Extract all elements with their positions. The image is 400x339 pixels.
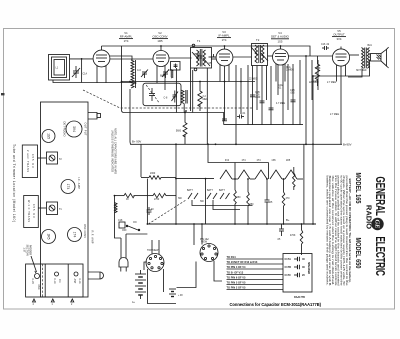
tube V3 [216,46,233,68]
switch contacts BATT/SW [178,189,230,203]
wire V5 cathode down [340,66,342,144]
wire plug risers [115,222,148,246]
svg-text:TO PIN 2 OF V5: TO PIN 2 OF V5 [227,286,247,290]
svg-text:T1: T1 [197,39,201,43]
IF transformer T1 [191,39,212,71]
switch to filament wires [192,200,253,210]
svg-text:TO PIN 5 OF V5: TO PIN 5 OF V5 [227,281,247,285]
tuning gang box [26,264,83,297]
label IF AMP [77,177,81,189]
svg-text:SPEAKER: SPEAKER [307,262,310,274]
svg-text:1T4: 1T4 [73,232,77,238]
antenna tab top [88,113,101,120]
svg-text:B+90V: B+90V [343,143,352,147]
svg-text:1S5: 1S5 [47,133,51,139]
cap .05 mid [265,179,273,224]
svg-text:DET & AUDIO: DET & AUDIO [271,35,289,39]
svg-text:TO JUNCT OF R12 & R13: TO JUNCT OF R12 & R13 [227,260,258,264]
variable cap arrow [146,85,159,103]
wire x=190.5 [190,68,192,111]
label V5 OUTPUT 3V4 [332,29,346,41]
wire T1 feed [192,70,194,113]
svg-text:.005: .005 [290,93,295,95]
osc coil [181,90,187,113]
label B+90V right [343,143,352,147]
svg-text:2 unit TRANS: 2 unit TRANS [26,150,29,172]
wires socket1 [144,262,147,270]
tube pin drop wires [97,68,346,90]
filament string labels [225,160,291,162]
resistor 2300 [141,173,176,179]
resistor 470 [282,179,290,224]
svg-text:1T4: 1T4 [256,160,261,162]
svg-text:R.F. AMP: R.F. AMP [91,231,95,244]
resistor right of filament [292,167,295,190]
svg-text:22MEG: 22MEG [286,70,294,72]
svg-text:Connections for Capacitor ECM-: Connections for Capacitor ECM-3011(RAA17… [230,302,322,307]
padder arrow [31,256,37,273]
svg-text:PADDER: PADDER [29,245,32,255]
tube 3V4 layout [66,121,82,137]
svg-text:1R5: 1R5 [157,39,163,43]
output transformer [356,45,372,72]
svg-text:C17B: C17B [285,266,292,269]
wire output transformer bottom [348,68,362,77]
svg-text:1 ST: 1 ST [23,247,26,253]
label .27 MEG [327,82,336,84]
lower bus y=224 [147,223,316,225]
svg-text:OSC-CONV: OSC-CONV [152,35,167,39]
label SM11A [294,296,305,299]
resistor 680 a [234,179,241,224]
chassis box [41,102,89,297]
svg-text:SECTION: SECTION [26,244,29,255]
svg-text:1T4: 1T4 [124,39,129,43]
wires bottom risers [193,224,195,245]
svg-text:C15: C15 [313,81,318,83]
label B+90V left [132,140,141,144]
label box w-1c trans [24,196,47,228]
svg-text:GE: GE [374,219,381,229]
trimmer C-1A [72,66,87,78]
wire vertical x=141 [140,144,142,177]
horizontal y=124.6 [224,124,303,126]
svg-text:4.7 MEG: 4.7 MEG [276,103,285,105]
cap .05 b between T1 V3 [208,54,216,65]
dashed link from loop [83,90,252,108]
svg-text:1T4: 1T4 [66,184,70,190]
tube 1S5 layout [42,130,55,143]
left lower vertical [114,196,116,222]
label DET-AUDIO [63,122,67,137]
svg-text:C17A: C17A [285,258,292,261]
resistor 470K bottom [290,224,303,255]
resistor 470K output grid [313,56,320,86]
svg-text:1T4: 1T4 [222,38,227,42]
svg-text:B+: B+ [286,218,290,222]
antenna loop L1 [49,55,70,81]
svg-text:UNLESS OTHERWISE INDICATED: UNLESS OTHERWISE INDICATED [111,130,114,172]
trimmer inside box [172,91,179,103]
MODEL 165 [354,173,362,204]
grid capacitor box C7 [171,62,181,71]
svg-text:BATT: BATT [219,189,225,192]
battery A [132,270,146,304]
wire speaker return [313,60,370,224]
resistor 33 [115,193,150,201]
svg-text:W-1 C TRANS: W-1 C TRANS [27,200,30,222]
svg-text:3V4: 3V4 [337,37,342,41]
tube V4 [273,46,289,68]
svg-text:470K: 470K [290,235,296,237]
svg-text:C-1A: C-1A [78,278,81,284]
svg-text:TO PIN 4 OF V4: TO PIN 4 OF V4 [227,265,247,269]
svg-text:C16 .02: C16 .02 [321,44,330,46]
T1 square [47,202,63,215]
svg-text:5600: 5600 [176,131,182,133]
capacitor C18 [118,220,125,228]
label 660K [160,76,166,78]
caption tube and trimmer location [12,144,16,222]
svg-text:T2: T2 [256,38,260,42]
left vertical bus [122,46,224,125]
svg-text:TO B- OF V13: TO B- OF V13 [227,271,244,275]
gang section numbers [33,304,74,306]
coil on left bus [115,203,118,213]
trimmer cap top a [137,70,148,79]
svg-text:2.7 MEG: 2.7 MEG [327,82,336,84]
wire right bus x=303.9 [303,144,305,224]
svg-text:BLU: BLU [368,45,373,47]
dashed link switch [148,200,186,224]
svg-text:I.F. AMP: I.F. AMP [77,177,81,189]
speaker [370,47,389,68]
tube 1R5 layout [42,230,56,244]
svg-text:IF-AMPL: IF-AMPL [218,34,229,38]
RADIO [364,205,373,229]
B+ bus y=141 [130,89,342,144]
AVC bus y=81.5 [122,81,256,83]
tube V1 [93,46,110,69]
svg-text:OSC: OSC [37,284,39,289]
AC plug [119,245,128,272]
vertical x=205.5 [205,179,207,224]
wire loop bottom [53,80,135,83]
label OUT PUT [84,123,88,136]
svg-text:R.F.: R.F. [58,279,60,283]
svg-text:TO R14: TO R14 [227,255,237,259]
GENERAL ELECTRIC wordmark [372,176,386,276]
svg-text:C18: C18 [118,220,123,222]
battery note paragraph [325,176,352,287]
label 1st section padder [23,244,32,255]
svg-text:RF-AMPL: RF-AMPL [120,35,133,39]
svg-text:1S5: 1S5 [271,160,276,162]
svg-text:MMF: MMF [255,97,261,99]
oscillator section rounded box [143,83,181,106]
left margin tick [1,93,5,95]
label TOP VIEW [147,250,159,252]
svg-text:C-1B: C-1B [31,278,33,284]
resistor 2700 [149,193,176,201]
vertical x=147.4 [146,179,148,224]
cap .05 a [193,53,202,58]
tube 1T4 osc layout [68,228,82,242]
label RF AMP [91,231,95,244]
svg-text:3V4: 3V4 [225,160,230,162]
svg-text:BATT: BATT [187,189,193,192]
socket 1 [146,254,164,272]
small caps on verticals [222,95,296,121]
svg-text:MODEL 650: MODEL 650 [354,238,362,269]
svg-text:1S5: 1S5 [278,39,283,43]
svg-text:1T4: 1T4 [241,160,246,162]
svg-text:OUT PUT: OUT PUT [84,123,88,136]
svg-text:660K: 660K [160,76,166,78]
IF transformer T2 [251,38,268,66]
label V2 OSC-CONV 1R5 [152,31,168,43]
svg-text:2300: 2300 [150,173,156,175]
cap .05 bottom right [277,224,284,241]
svg-text:22 MEG: 22 MEG [249,79,258,81]
vertical x=176 [175,144,177,178]
svg-text:C17C: C17C [285,274,292,277]
svg-text:DET-AUDIO: DET-AUDIO [63,122,67,137]
svg-text:GENERAL: GENERAL [372,176,386,216]
svg-text:TOP VIEW: TOP VIEW [147,250,159,252]
wire y=178.6 [176,178,214,180]
wire coil top [110,56,132,60]
resistor 5600 [176,112,187,145]
svg-text:Tube and Trimmer Location (Mod: Tube and Trimmer Location (Model 160) [12,144,16,222]
tube 1T4 if layout [61,180,75,194]
svg-text:TO PIN 6 OF V5: TO PIN 6 OF V5 [227,276,247,280]
label OSC CONV [83,224,87,238]
svg-text:ELECTRIC: ELECTRIC [372,236,386,276]
svg-text:C-1C: C-1C [53,278,55,284]
note all capacitors [111,128,117,174]
svg-text:RADIO: RADIO [364,205,373,229]
variable cap C1B [149,88,155,101]
top wire bus y=46 [102,46,311,56]
svg-text:C1A: C1A [83,73,88,76]
wire V3 cathode drop [206,68,208,144]
GE monogram logo [371,218,383,230]
svg-text:2.7 MEG: 2.7 MEG [330,114,339,116]
wire avc drop x=176.4 [175,68,177,113]
svg-text:OSC CONV: OSC CONV [83,224,87,238]
svg-text:MEG: MEG [203,99,208,101]
svg-text:2700: 2700 [154,199,160,201]
socket1 stubs to switch [152,240,159,255]
label C-8 [164,98,168,100]
trimmer cap top b [162,70,173,79]
T2 square [47,152,63,164]
verticals under V3/T2/V4 [224,66,226,121]
label V4 DET & AUDIO 1S5 [271,31,290,43]
label V3 IF-AMPL 1T4 [217,30,231,42]
svg-text:3V4: 3V4 [72,126,76,132]
tube V5 [332,47,349,70]
label V1 RF-AMPL 1T4 [119,31,133,43]
wire antenna drop [81,58,83,83]
svg-text:RAA177B: RAA177B [294,296,305,299]
svg-text:BATT: BATT [207,189,213,192]
svg-text:+ 9V: + 9V [178,295,183,297]
svg-text:OUTPUT: OUTPUT [333,33,345,37]
svg-text:455 KC: 455 KC [31,154,34,168]
filament left riser [207,143,268,179]
wire L1 to V1 grid [70,58,94,60]
label box 2 unit trans [22,145,46,178]
antenna tab bottom [88,272,104,279]
cap C16 .02 [321,44,330,50]
labels under V4 [249,66,339,116]
svg-text:NOT RED: NOT RED [356,70,367,72]
on-off switch [122,222,140,232]
MODEL 650 [354,238,362,269]
svg-text:OFF: OFF [122,230,127,232]
cap .01 [237,113,246,119]
svg-text:455 KC: 455 KC [32,204,35,218]
label B+ [286,218,290,222]
label bottom view [200,239,209,244]
socket 2 [200,244,218,262]
connection list rows [227,255,284,290]
resistor 680 b [247,179,254,224]
svg-text:MODEL 165: MODEL 165 [354,173,362,204]
caption connections [230,302,322,307]
filament chevrons [220,170,303,179]
choke under C7 box [171,70,173,78]
battery B [169,289,183,297]
wires socket2 [177,262,197,288]
resistor 2.2meg v3 grid [198,82,208,112]
electrolytic can C17 [283,254,312,293]
svg-text:1R5: 1R5 [286,160,291,162]
svg-text:ON: ON [133,222,137,224]
rf coil L2 [131,60,136,88]
wire tube row y=59 [110,58,153,60]
gang ticks [33,299,74,302]
svg-text:1R5: 1R5 [47,233,51,239]
wire vertical x=176 lower [175,179,177,224]
svg-text:B+ 90V: B+ 90V [132,140,141,144]
svg-text:ANT: ANT [73,279,76,284]
svg-text:battery, which are connected b: battery, which are connected by means of… [325,176,329,286]
cap 40 [147,207,155,215]
tube V2 [153,46,169,69]
